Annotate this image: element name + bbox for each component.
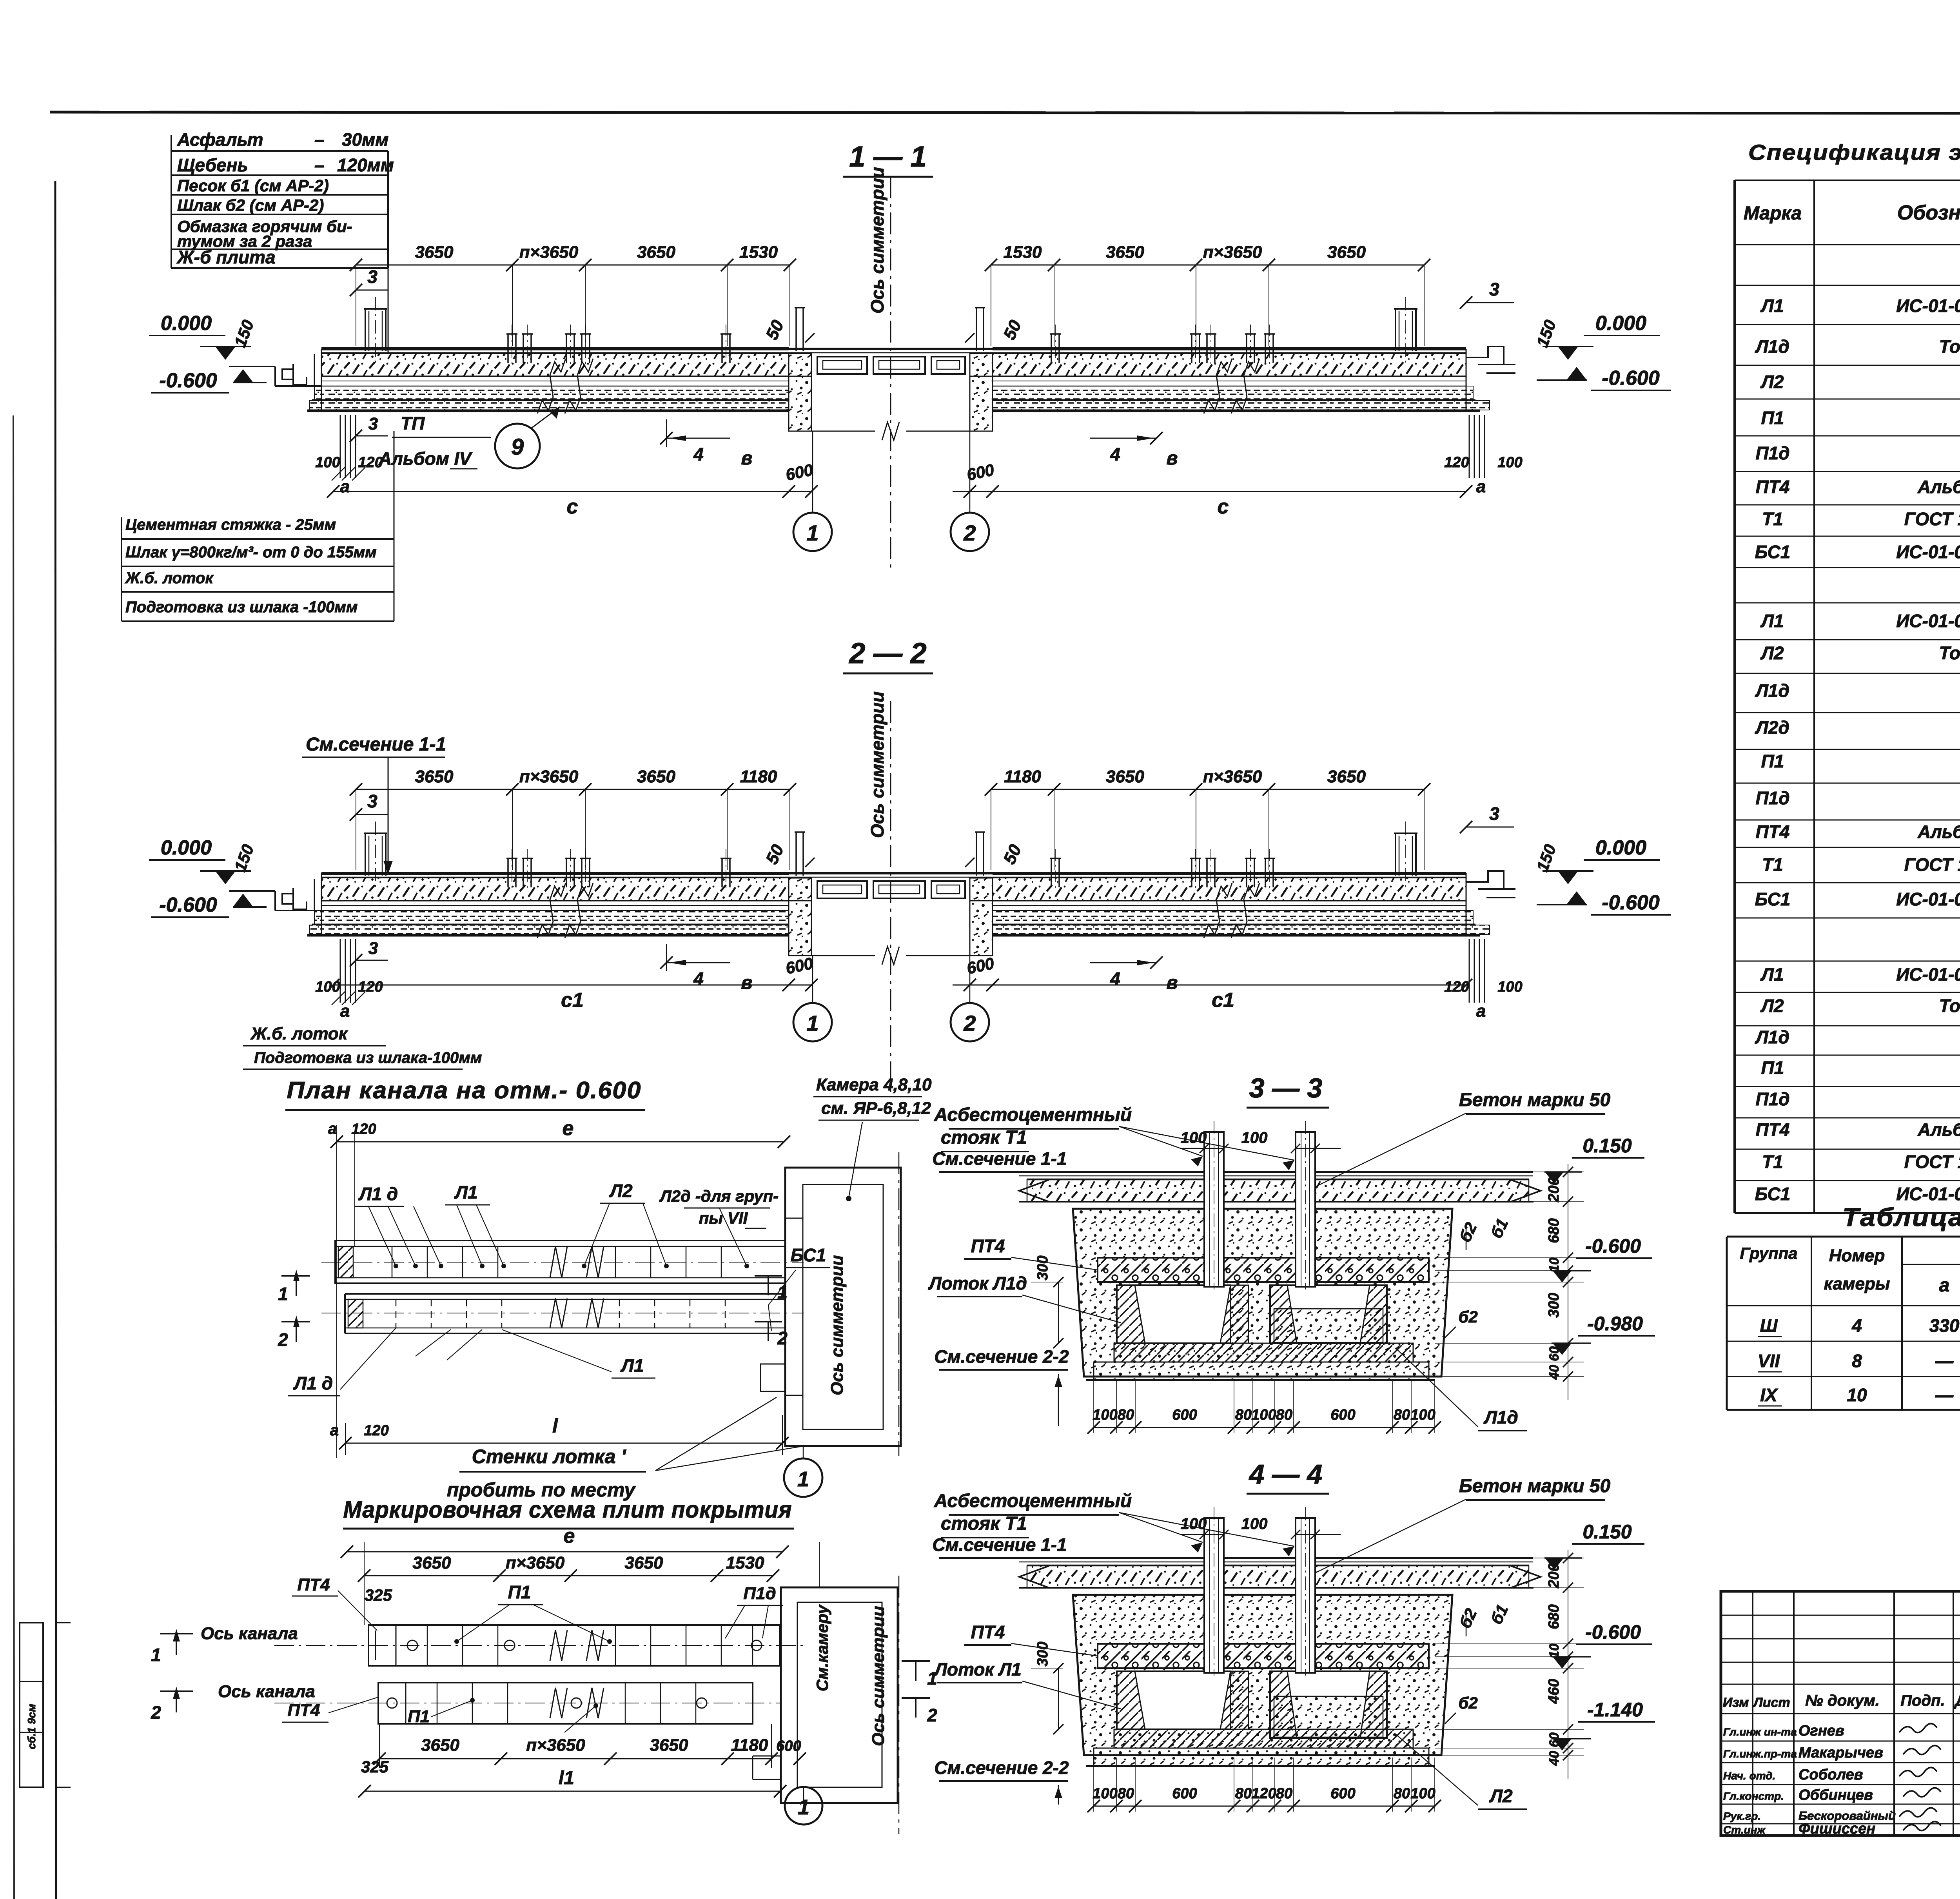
svg-text:Т1: Т1: [1762, 854, 1783, 875]
trough body (concrete fill): [1073, 1595, 1452, 1755]
bottom slab strip: [1094, 1748, 1429, 1766]
svg-text:Асфальт: Асфальт: [177, 129, 263, 150]
dim l1: [365, 1791, 780, 1792]
svg-text:Асбестоцементный: Асбестоцементный: [934, 1491, 1132, 1511]
svg-text:ИС-01-04 вып.2: ИС-01-04 вып.2: [1896, 1184, 1960, 1204]
svg-text:То же: То же: [1939, 643, 1960, 663]
svg-text:3: 3: [1489, 803, 1499, 824]
wall extension to grid circles: [812, 956, 813, 1003]
band ends vertical: [321, 349, 322, 411]
svg-text:П1: П1: [1761, 751, 1784, 771]
svg-text:Подп.: Подп.: [1900, 1692, 1945, 1709]
long dim line below: [333, 491, 811, 492]
svg-text:БС1: БС1: [791, 1245, 826, 1265]
svg-text:ПТ4: ПТ4: [1756, 822, 1790, 842]
svg-text:VII: VII: [1758, 1351, 1780, 1371]
svg-text:0.150: 0.150: [1583, 1135, 1632, 1157]
svg-text:БС1: БС1: [1755, 1184, 1791, 1204]
svg-text:ИС-01-04 вып.2: ИС-01-04 вып.2: [1896, 964, 1960, 985]
svg-text:60: 60: [1547, 1346, 1562, 1361]
svg-text:в: в: [1167, 448, 1178, 469]
svg-text:П1д: П1д: [743, 1584, 776, 1603]
axis dash-dot lower strip: [321, 1313, 804, 1313]
right dim chain: [1568, 1550, 1568, 1779]
pipe dim 100: [1180, 1534, 1224, 1535]
svg-text:10: 10: [1547, 1643, 1562, 1658]
grid circle 1: [793, 513, 832, 551]
svg-text:Л1д: Л1д: [1483, 1407, 1518, 1427]
svg-text:с: с: [567, 495, 578, 518]
wall stub pipes + 50 labels: [795, 832, 797, 876]
svg-text:ИС-01-04 вып.2: ИС-01-04 вып.2: [1896, 611, 1960, 631]
svg-text:ИС-01-04 вып.2: ИС-01-04 вып.2: [1896, 542, 1960, 562]
svg-text:100: 100: [1251, 1407, 1276, 1423]
svg-text:Т1: Т1: [1762, 1152, 1783, 1172]
svg-text:80: 80: [1276, 1407, 1292, 1423]
svg-text:Ж.б. лоток: Ж.б. лоток: [125, 570, 214, 587]
svg-text:3: 3: [368, 939, 378, 958]
svg-text:Бетон марки 50: Бетон марки 50: [1459, 1090, 1611, 1110]
grid circle 2: [951, 513, 989, 551]
svg-text:См.камеру: См.камеру: [813, 1604, 831, 1691]
svg-text:Таблица размеров: Таблица размеров: [1842, 1203, 1960, 1232]
svg-text:600: 600: [1172, 1785, 1197, 1802]
svg-text:а: а: [328, 1120, 337, 1137]
svg-text:Л2: Л2: [609, 1181, 633, 1201]
svg-text:п×3650: п×3650: [506, 1553, 565, 1573]
svg-text:Фишиссен: Фишиссен: [1798, 1821, 1875, 1837]
svg-text:3650: 3650: [1106, 243, 1144, 262]
svg-text:б2: б2: [1458, 1694, 1477, 1712]
svg-text:0.000: 0.000: [161, 312, 212, 335]
svg-text:Ось канала: Ось канала: [201, 1624, 298, 1643]
svg-text:БС1: БС1: [1755, 889, 1791, 909]
svg-text:п×3650: п×3650: [519, 767, 579, 786]
svg-text:10: 10: [1847, 1385, 1867, 1405]
svg-text:80: 80: [1235, 1407, 1252, 1423]
bedding under voids: [1114, 1729, 1413, 1748]
svg-text:300: 300: [1034, 1641, 1051, 1666]
section marks plan right: [755, 1275, 782, 1277]
svg-text:100: 100: [1093, 1407, 1117, 1423]
signatures squiggles: [1899, 1723, 1937, 1732]
svg-text:Л2: Л2: [1489, 1786, 1513, 1806]
svg-text:Л1 д: Л1 д: [358, 1184, 398, 1204]
wall hatch symbol left: [340, 939, 341, 1003]
small dim 3 left: [356, 814, 388, 815]
chamber plan: [785, 1168, 901, 1446]
svg-text:п×3650: п×3650: [526, 1736, 585, 1755]
left void walls hatched: [1117, 1285, 1145, 1343]
svg-text:БС1: БС1: [1755, 542, 1791, 562]
svg-text:Бетон марки 50: Бетон марки 50: [1459, 1476, 1611, 1496]
grid circle 1: [793, 1003, 832, 1041]
svg-text:см. ЯР-6,8,12: см. ЯР-6,8,12: [821, 1099, 931, 1118]
axis of symmetry: [890, 176, 891, 568]
marking lower strip: [378, 1683, 753, 1724]
band break marks: [537, 883, 566, 938]
svg-text:3650: 3650: [415, 767, 454, 786]
svg-text:Шлак б2 (см АР-2): Шлак б2 (см АР-2): [177, 196, 324, 214]
dim 4 below left: [666, 419, 667, 447]
svg-text:Подготовка из шлака-100мм: Подготовка из шлака-100мм: [254, 1049, 482, 1066]
svg-text:П1: П1: [408, 1707, 430, 1726]
bedding under voids: [1114, 1343, 1413, 1362]
svg-text:100: 100: [1497, 979, 1522, 995]
svg-text:Л1: Л1: [1760, 611, 1784, 631]
svg-text:Л1: Л1: [620, 1355, 644, 1376]
svg-text:стояк Т1: стояк Т1: [941, 1513, 1027, 1534]
svg-text:1: 1: [797, 1467, 809, 1491]
svg-text:п×3650: п×3650: [1203, 767, 1262, 786]
svg-text:в: в: [1167, 972, 1178, 993]
signature rows: [1721, 1741, 1960, 1742]
svg-text:в: в: [741, 448, 753, 469]
svg-text:2: 2: [278, 1329, 288, 1350]
svg-text:1: 1: [806, 1011, 818, 1036]
svg-text:3650: 3650: [421, 1736, 459, 1755]
svg-text:80: 80: [1394, 1407, 1410, 1423]
svg-text:Огнев: Огнев: [1798, 1723, 1844, 1739]
title block revision grid: [1721, 1615, 1960, 1616]
svg-text:200: 200: [1546, 1177, 1562, 1202]
left void walls hatched: [1117, 1671, 1145, 1729]
svg-text:Группа: Группа: [1740, 1244, 1797, 1262]
roadway band left / right halves: [321, 347, 789, 350]
svg-text:П1д: П1д: [1755, 1089, 1789, 1109]
svg-text:стояк Т1: стояк Т1: [941, 1127, 1027, 1148]
svg-text:Дата: Дата: [1954, 1692, 1960, 1709]
chamber lid plates: [817, 881, 867, 898]
svg-text:Ось симметрии: Ось симметрии: [867, 691, 887, 838]
svg-text:120: 120: [1444, 454, 1469, 471]
right channel void: [1270, 1671, 1387, 1738]
svg-text:3: 3: [367, 267, 377, 287]
svg-text:120: 120: [364, 1422, 388, 1439]
chamber right wall: [970, 354, 993, 376]
dim 4 below right: [1090, 962, 1156, 963]
svg-text:ТП: ТП: [401, 413, 425, 433]
axis of symmetry: [890, 701, 891, 1093]
svg-text:Л2д -для груп-: Л2д -для груп-: [659, 1187, 779, 1205]
top surface across chamber: [789, 348, 993, 350]
svg-text:Обозначение: Обозначение: [1897, 201, 1960, 224]
svg-text:б2: б2: [1458, 1308, 1477, 1326]
left end ground detail: [229, 890, 275, 892]
svg-text:№ докум.: № докум.: [1805, 1692, 1880, 1709]
svg-text:l1: l1: [559, 1768, 574, 1788]
svg-text:8: 8: [1852, 1351, 1862, 1371]
wall hatch symbol left: [340, 415, 341, 478]
left end ground detail: [229, 366, 275, 367]
svg-text:П1: П1: [1761, 1057, 1784, 1078]
svg-text:См.сечение 2-2: См.сечение 2-2: [934, 1346, 1069, 1367]
svg-text:Ось симметрии: Ось симметрии: [828, 1255, 847, 1395]
svg-text:Шлак γ=800кг/м³- от 0 до 155мм: Шлак γ=800кг/м³- от 0 до 155мм: [125, 544, 377, 561]
svg-text:100: 100: [1410, 1407, 1435, 1423]
legend (pavement layers) box: [171, 150, 388, 152]
svg-text:Ось симметрии: Ось симметрии: [869, 1606, 888, 1746]
svg-text:Нач. отд.: Нач. отд.: [1723, 1770, 1775, 1782]
svg-text:П1: П1: [1761, 408, 1784, 428]
svg-text:в: в: [741, 972, 753, 993]
svg-text:См.сечение 1-1: См.сечение 1-1: [306, 734, 446, 755]
svg-text:3650: 3650: [415, 243, 454, 262]
svg-text:Марка: Марка: [1744, 203, 1802, 224]
svg-text:2 — 2: 2 — 2: [848, 637, 926, 669]
sheet frame top border: [50, 112, 1960, 114]
svg-text:1: 1: [777, 1282, 788, 1302]
svg-text:ГОСТ 1839-72: ГОСТ 1839-72: [1904, 1152, 1960, 1172]
svg-text:600: 600: [1330, 1407, 1355, 1423]
svg-text:См.сечение 2-2: См.сечение 2-2: [934, 1758, 1069, 1778]
marking upper strip: [368, 1625, 780, 1666]
svg-text:3650: 3650: [637, 243, 675, 262]
wall stub pipes + 50 labels: [795, 308, 797, 351]
svg-text:1180: 1180: [1004, 767, 1041, 786]
svg-text:е: е: [563, 1117, 574, 1140]
riser pipes: [1204, 1518, 1224, 1673]
svg-text:П1д: П1д: [1755, 443, 1789, 463]
svg-text:1: 1: [151, 1645, 161, 1665]
svg-text:80: 80: [1235, 1785, 1252, 1802]
svg-text:2: 2: [777, 1328, 788, 1348]
svg-text:0.000: 0.000: [161, 836, 212, 859]
svg-text:Лист: Лист: [1752, 1695, 1790, 1710]
svg-text:3650: 3650: [625, 1553, 663, 1573]
top dims marking: [364, 1575, 773, 1576]
svg-text:Л1: Л1: [1760, 964, 1784, 985]
bottom dim line: [1094, 1806, 1435, 1807]
svg-text:Л1 д: Л1 д: [293, 1373, 333, 1393]
dims table grid: [1727, 1236, 1960, 1238]
svg-text:а: а: [1939, 1275, 1950, 1296]
svg-text:1530: 1530: [726, 1553, 764, 1573]
left dim 300: [1058, 1668, 1059, 1729]
svg-text:1: 1: [806, 521, 818, 545]
svg-text:Альбом IV: Альбом IV: [1917, 822, 1960, 842]
svg-text:а: а: [340, 1001, 350, 1021]
svg-text:Лоток Л1: Лоток Л1: [933, 1659, 1021, 1680]
chamber bottom line with break: [811, 955, 875, 956]
svg-text:а: а: [330, 1422, 339, 1439]
dim 4 below left: [666, 944, 667, 971]
svg-text:4: 4: [1110, 969, 1120, 989]
bottom dims marking: [379, 1758, 771, 1759]
legend leader down: [388, 268, 389, 353]
svg-text:П1: П1: [508, 1582, 531, 1602]
svg-text:Альбом IV: Альбом IV: [1917, 477, 1960, 497]
svg-text:0.000: 0.000: [1595, 312, 1646, 335]
svg-text:40: 40: [1547, 1365, 1562, 1380]
svg-text:а: а: [1476, 477, 1486, 496]
svg-text:Рук.гр.: Рук.гр.: [1723, 1810, 1761, 1822]
right dim chain: [1568, 1164, 1568, 1400]
wall extension to grid circles: [812, 431, 813, 512]
svg-text:300: 300: [1034, 1255, 1051, 1280]
svg-text:120: 120: [358, 979, 383, 995]
svg-text:80: 80: [1276, 1785, 1292, 1802]
svg-text:Гл.инж.пр-та: Гл.инж.пр-та: [1723, 1748, 1797, 1760]
svg-text:330: 330: [1929, 1315, 1960, 1336]
bottom dim line: [1094, 1427, 1435, 1428]
svg-text:Стенки лотка ': Стенки лотка ': [472, 1446, 627, 1467]
svg-text:120: 120: [1251, 1785, 1276, 1802]
svg-text:30мм: 30мм: [342, 129, 388, 150]
svg-text:ГОСТ 1839-72: ГОСТ 1839-72: [1904, 509, 1960, 529]
svg-text:40: 40: [1547, 1751, 1562, 1766]
svg-text:Альбом IV: Альбом IV: [378, 448, 472, 469]
svg-text:а: а: [340, 477, 350, 496]
left channel void: [1117, 1285, 1230, 1343]
svg-text:Цементная стяжка - 25мм: Цементная стяжка - 25мм: [125, 516, 336, 533]
scan edge line left: [13, 415, 14, 1899]
svg-text:Подготовка из шлака -100мм: Подготовка из шлака -100мм: [125, 599, 358, 616]
svg-text:1: 1: [798, 1796, 809, 1819]
trough body (concrete fill): [1073, 1209, 1452, 1377]
svg-text:680: 680: [1546, 1604, 1562, 1629]
left margin stamp: [20, 1623, 43, 1787]
svg-text:Гл.констр.: Гл.констр.: [1723, 1790, 1784, 1802]
svg-text:100: 100: [1181, 1129, 1207, 1146]
lower strip of plan: [345, 1293, 785, 1295]
chamber left wall: [789, 354, 811, 376]
svg-text:1530: 1530: [1004, 243, 1042, 262]
small dim 3 right: [1466, 827, 1514, 828]
svg-text:Лоток Л1д: Лоток Л1д: [928, 1273, 1027, 1293]
chamber bottom line with break: [811, 431, 875, 432]
svg-text:10: 10: [1547, 1257, 1562, 1272]
svg-text:100: 100: [1410, 1785, 1435, 1802]
svg-text:3650: 3650: [413, 1553, 451, 1573]
small left frame tick marks: [56, 1622, 71, 1623]
svg-text:-0.600: -0.600: [159, 369, 217, 392]
top slab lines: [1019, 1557, 1533, 1559]
band ends vertical: [321, 873, 322, 935]
svg-text:100: 100: [1181, 1515, 1207, 1533]
svg-text:Ст.инж: Ст.инж: [1723, 1824, 1766, 1836]
lintel PT4 strip: [1098, 1258, 1429, 1282]
svg-text:3: 3: [1489, 279, 1499, 299]
svg-text:2: 2: [151, 1702, 161, 1723]
svg-text:Альбом IV: Альбом IV: [1917, 1119, 1960, 1140]
svg-text:с1: с1: [561, 989, 584, 1012]
axis of channel lower: [274, 1703, 780, 1703]
svg-text:680: 680: [1546, 1218, 1562, 1243]
axis of channel upper: [274, 1645, 808, 1646]
svg-text:—: —: [1935, 1351, 1954, 1371]
detail circle 9: [495, 424, 540, 468]
svg-text:300: 300: [1546, 1293, 1562, 1317]
plan grid circle 1: [803, 1446, 804, 1459]
svg-text:80: 80: [1118, 1407, 1134, 1423]
small dim 3 below left: [356, 939, 356, 971]
chamber lid plates: [817, 357, 867, 374]
svg-text:-0.600: -0.600: [1585, 1235, 1641, 1257]
svg-text:Оббинцев: Оббинцев: [1798, 1787, 1873, 1803]
svg-text:ПТ4: ПТ4: [298, 1575, 330, 1594]
svg-text:ГОСТ 1839-72: ГОСТ 1839-72: [1904, 854, 1960, 875]
axis of symmetry chamber: [898, 1152, 900, 1456]
top surface across chamber: [789, 872, 993, 874]
title block outer: [1721, 1591, 1960, 1836]
svg-text:9: 9: [511, 434, 524, 460]
svg-text:325: 325: [365, 1586, 392, 1604]
svg-text:Ш: Ш: [1760, 1315, 1778, 1336]
svg-text:ПТ4: ПТ4: [288, 1701, 320, 1720]
right void walls hatched: [1270, 1671, 1297, 1738]
bottom slab strip: [1094, 1362, 1429, 1380]
lintel PT4 strip: [1098, 1644, 1429, 1668]
svg-text:2: 2: [963, 1011, 976, 1036]
svg-text:120мм: 120мм: [337, 155, 394, 175]
right end drain detail: [1466, 346, 1504, 365]
svg-text:а: а: [1476, 1001, 1486, 1021]
top dimension line: [356, 789, 790, 790]
svg-text:80: 80: [1394, 1785, 1410, 1802]
svg-text:1: 1: [278, 1284, 288, 1304]
svg-text:3650: 3650: [637, 767, 675, 786]
svg-text:Спецификация элементов, распо: Спецификация элементов, расположенных на…: [1748, 140, 1960, 165]
marking chamber: [781, 1587, 898, 1803]
svg-text:2: 2: [927, 1705, 937, 1725]
svg-text:3650: 3650: [650, 1736, 688, 1755]
svg-text:l: l: [552, 1415, 558, 1437]
bolts lower: [387, 1698, 397, 1708]
svg-text:пы VII: пы VII: [699, 1209, 748, 1227]
marking section marks right: [902, 1660, 930, 1662]
svg-text:См.сечение 1-1: См.сечение 1-1: [932, 1534, 1067, 1555]
svg-text:То же: То же: [1939, 336, 1960, 357]
svg-text:1180: 1180: [740, 767, 777, 786]
grid circle 2: [951, 1003, 989, 1041]
svg-text:Л2д: Л2д: [1755, 717, 1789, 738]
svg-text:600: 600: [1172, 1407, 1197, 1423]
svg-text:3: 3: [368, 414, 378, 433]
svg-text:План канала на отм.- 0.600: План канала на отм.- 0.600: [287, 1077, 642, 1103]
svg-text:3650: 3650: [1327, 767, 1366, 786]
svg-text:4: 4: [1110, 444, 1120, 464]
svg-text:Л2: Л2: [1760, 643, 1784, 663]
dim e top: [337, 1141, 784, 1143]
svg-text:Песок б1 (см АР-2): Песок б1 (см АР-2): [177, 176, 329, 195]
svg-text:Соболев: Соболев: [1798, 1767, 1863, 1783]
section marks plan left: [281, 1275, 310, 1277]
svg-text:-0.600: -0.600: [1585, 1621, 1641, 1643]
right channel void: [1270, 1285, 1387, 1343]
svg-text:–: –: [314, 155, 325, 175]
riser pipes tall T1: [365, 309, 366, 351]
marking section marks left: [160, 1633, 193, 1634]
svg-text:Ось симметрии: Ось симметрии: [867, 167, 887, 314]
left dim 300: [1058, 1282, 1059, 1343]
riser pipes: [1204, 1132, 1224, 1287]
top slab lines: [1019, 1171, 1533, 1173]
svg-text:То же: То же: [1939, 996, 1960, 1016]
svg-text:Л1: Л1: [1760, 296, 1784, 316]
svg-text:-0.980: -0.980: [1587, 1313, 1643, 1335]
gravel strip: [1027, 1566, 1529, 1588]
svg-text:Асбестоцементный: Асбестоцементный: [934, 1105, 1132, 1125]
svg-text:4: 4: [1851, 1315, 1862, 1336]
svg-text:4 — 4: 4 — 4: [1249, 1459, 1323, 1489]
svg-text:Л1д: Л1д: [1755, 336, 1789, 357]
svg-text:3650: 3650: [1327, 243, 1366, 262]
svg-text:ПТ4: ПТ4: [1756, 1119, 1790, 1140]
svg-text:Камера 4,8,10: Камера 4,8,10: [816, 1075, 932, 1094]
svg-text:Ж.б. лоток: Ж.б. лоток: [250, 1024, 348, 1043]
wall hatch symbol right: [1469, 415, 1470, 478]
